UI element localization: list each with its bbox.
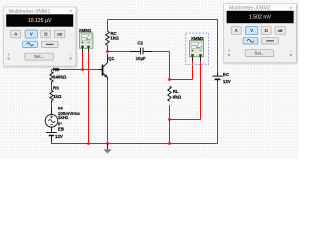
svg-text:Set...: Set... (254, 51, 264, 56)
svg-text:EB: EB (58, 126, 64, 131)
svg-text:1.502 mV: 1.502 mV (249, 14, 272, 20)
svg-text:A: A (235, 28, 238, 33)
svg-text:EC: EC (223, 72, 230, 77)
svg-text:V: V (30, 32, 33, 37)
svg-text:+: + (228, 48, 231, 53)
svg-text:Ω: Ω (264, 28, 268, 33)
svg-text:C2: C2 (137, 40, 143, 45)
svg-text:10.125 µV: 10.125 µV (28, 18, 52, 24)
svg-text:dB: dB (57, 33, 62, 37)
svg-text:es: es (58, 105, 63, 110)
svg-text:+: + (7, 52, 10, 57)
svg-text:1kΩ: 1kΩ (53, 94, 62, 99)
svg-text:12V: 12V (55, 134, 63, 139)
svg-text:1kΩ: 1kΩ (110, 35, 119, 40)
svg-text:V: V (250, 28, 253, 33)
svg-text:6kΩ: 6kΩ (173, 95, 182, 100)
svg-text:12V: 12V (223, 79, 231, 84)
svg-text:XMM1: XMM1 (79, 28, 92, 33)
svg-text:10µF: 10µF (136, 56, 146, 61)
svg-text:Ω: Ω (44, 32, 48, 37)
svg-text:RL: RL (173, 89, 179, 94)
svg-text:RB: RB (53, 67, 59, 72)
svg-text:Set...: Set... (34, 54, 44, 59)
svg-text:×: × (69, 9, 72, 15)
svg-text:1kHz: 1kHz (58, 115, 69, 120)
svg-text:×: × (289, 6, 292, 12)
svg-text:240kΩ: 240kΩ (53, 75, 67, 80)
svg-text:Q1: Q1 (108, 56, 114, 61)
svg-text:A: A (14, 32, 17, 37)
svg-text:dB: dB (278, 29, 283, 33)
svg-text:RS: RS (53, 86, 59, 91)
svg-text:XMM2: XMM2 (191, 36, 204, 41)
